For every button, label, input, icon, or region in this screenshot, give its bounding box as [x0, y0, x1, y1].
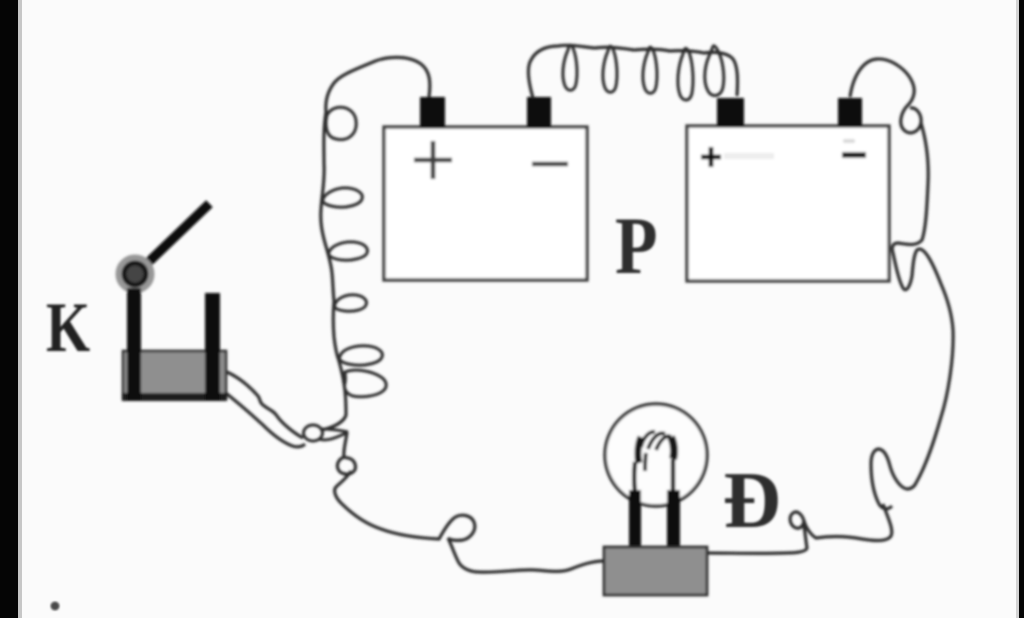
- coiled wire between battery 1 and battery 2: [528, 45, 737, 98]
- lamp filament scribble: [638, 437, 641, 463]
- left coil loop 3 (flat oval): [329, 242, 368, 260]
- battery 2 minus sign: [842, 152, 866, 158]
- right black border bar: [1019, 0, 1024, 618]
- svg-text:Đ: Đ: [723, 457, 781, 545]
- lamp left post: [629, 490, 641, 549]
- coil hanging loop 4: [678, 48, 693, 100]
- bottom wire from junction to lamp base: [335, 432, 604, 572]
- svg-text:P: P: [615, 201, 658, 292]
- switch K pivot circle: [119, 258, 152, 291]
- wire from switch base to junction (doubled doodle): [227, 372, 303, 438]
- left coil loop 5 (oval): [339, 346, 382, 365]
- switch K lever arm: [134, 207, 206, 276]
- battery 2 negative terminal tab: [838, 98, 862, 127]
- lamp base (gray): [604, 547, 707, 595]
- switch base dark bottom edge: [122, 393, 227, 401]
- lamp bulb circle: [605, 404, 707, 506]
- battery 2 plus sign: [701, 147, 721, 167]
- faint smudge above battery 2 minus: [843, 139, 855, 143]
- battery 2 positive terminal tab: [717, 98, 744, 127]
- left coil loop 2 (flat oval): [323, 188, 363, 207]
- switch base (gray): [123, 351, 226, 399]
- lamp right post: [667, 490, 680, 549]
- left loopy wire from battery 1 positive terminal down to junction (spine): [321, 57, 430, 430]
- switch left post: [127, 288, 141, 400]
- coil hanging loop 1: [563, 45, 577, 90]
- stray ink dot bottom-left: [51, 602, 60, 611]
- battery 1 negative terminal tab: [527, 97, 551, 128]
- lamp inner lead wires: [632, 462, 637, 493]
- left black border bar: [0, 0, 18, 618]
- junction loop (left bottom): [304, 425, 323, 441]
- junction strand lower: [319, 433, 348, 440]
- right wire: battery2 right terminal up over and down the right side to lamp base: [708, 59, 953, 554]
- svg-text:K: K: [46, 288, 90, 366]
- switch right post: [205, 293, 220, 400]
- left coil loop 4 (small oval): [334, 295, 366, 311]
- coil hanging loop 3: [643, 47, 657, 93]
- battery 1 plus sign: [414, 141, 452, 179]
- faint smudge right of battery 2 plus: [724, 153, 774, 159]
- battery 1 positive terminal tab: [420, 97, 445, 128]
- left coil loop 1 (round): [326, 107, 356, 139]
- junction strand upper: [321, 429, 348, 432]
- battery 1 minus sign: [532, 162, 568, 167]
- left coil loop 6 (triangle): [344, 370, 386, 397]
- battery 2 (right) body: [687, 126, 889, 281]
- coil hanging loop 2: [603, 46, 617, 92]
- battery 1 (left) body: [384, 127, 587, 280]
- coil hanging loop 5: [705, 46, 724, 96]
